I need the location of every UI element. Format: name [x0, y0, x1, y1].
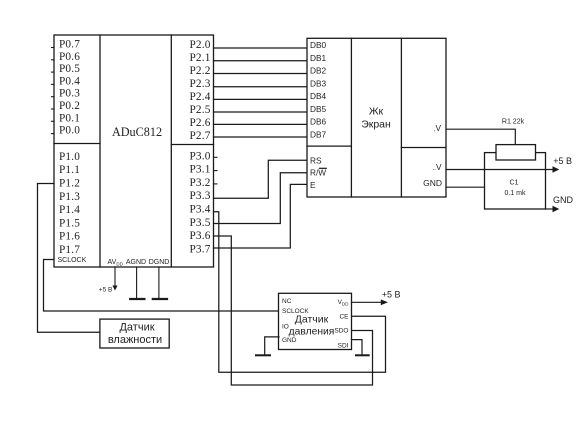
svg-text:P1.1: P1.1: [59, 164, 80, 176]
svg-text:,V: ,V: [434, 123, 442, 133]
ground AGND: [130, 267, 144, 299]
svg-text:P2.7: P2.7: [189, 130, 210, 142]
capacitor C1 box: [485, 153, 546, 209]
LCD DB/control divider: [307, 145, 351, 147]
svg-text:P3.5: P3.5: [189, 217, 210, 229]
wire P2.6 to DB6: [214, 123, 308, 125]
wire C1 bottom to GND arrow: [546, 208, 553, 210]
wire sensor SDI to ground: [352, 340, 363, 356]
svg-text:P2.3: P2.3: [189, 78, 210, 90]
wire P2.7 to DB7: [214, 136, 308, 138]
svg-text:DB0: DB0: [310, 40, 327, 50]
wire P2.2 to DB2: [214, 73, 308, 75]
U1 right column divider: [170, 35, 172, 267]
wire P1.2 to humidity sensor: [38, 184, 100, 333]
wire P3.4 to CE (via bottom): [214, 212, 386, 373]
svg-text:P2.4: P2.4: [189, 91, 210, 103]
resistor R1 body: [496, 145, 536, 160]
wire LCD ,V to resistor R1: [446, 129, 515, 144]
pin tick P3.1: [214, 170, 218, 172]
svg-text:DB2: DB2: [310, 66, 327, 76]
svg-text:Датчик: Датчик: [295, 314, 329, 326]
svg-text:DB6: DB6: [310, 117, 327, 127]
U1 left column divider: [99, 35, 101, 267]
LCD module box: [307, 38, 446, 197]
wire P3.3 to RS: [214, 160, 308, 198]
svg-text:ADuC812: ADuC812: [112, 125, 162, 139]
svg-text:P3.0: P3.0: [189, 150, 210, 162]
svg-text:P1.3: P1.3: [59, 191, 80, 203]
svg-text:R/W: R/W: [310, 168, 326, 178]
svg-text:P0.5: P0.5: [59, 63, 80, 75]
svg-text:P0.2: P0.2: [59, 100, 80, 112]
wire SCLOCK to pressure sensor SCLOCK: [44, 260, 280, 312]
LCD right column divider: [401, 147, 446, 149]
svg-text:R1 22k: R1 22k: [502, 119, 525, 126]
svg-text:P0.3: P0.3: [59, 88, 80, 100]
svg-text:Датчик: Датчик: [119, 322, 154, 334]
ground DGND: [153, 267, 167, 299]
svg-text:P0.4: P0.4: [59, 75, 80, 87]
wire LCD ..V to +5V: [446, 169, 553, 171]
svg-text:+5 В: +5 В: [382, 290, 401, 300]
svg-text:P0.7: P0.7: [59, 39, 80, 51]
svg-text:RS: RS: [310, 155, 322, 165]
svg-text:AGND: AGND: [126, 259, 146, 266]
svg-text:GND: GND: [553, 195, 574, 205]
svg-text:Жк: Жк: [369, 106, 384, 118]
svg-text:GND: GND: [282, 337, 297, 344]
svg-text:DB1: DB1: [310, 53, 327, 63]
svg-text:DB4: DB4: [310, 91, 327, 101]
svg-text:P3.4: P3.4: [189, 204, 210, 216]
U1 P2/P3 section divider: [171, 144, 213, 146]
svg-text:P3.3: P3.3: [189, 190, 210, 202]
pressure sensor box: [279, 293, 352, 349]
svg-text:SCLOCK: SCLOCK: [58, 257, 87, 264]
svg-text:C1: C1: [510, 180, 519, 187]
ground (sensor GND): [256, 354, 270, 356]
pin tick P0.6: [52, 59, 55, 61]
svg-text:P0.1: P0.1: [59, 112, 80, 124]
svg-text:P1.4: P1.4: [59, 204, 80, 216]
svg-text:влажности: влажности: [108, 334, 162, 346]
svg-text:P3.7: P3.7: [189, 243, 210, 255]
svg-text:P0.0: P0.0: [59, 125, 80, 137]
svg-text:P1.6: P1.6: [59, 231, 80, 243]
svg-text:P2.1: P2.1: [189, 52, 210, 64]
svg-text:DB5: DB5: [310, 104, 327, 114]
microcontroller U1 ADuC812 outer box: [54, 35, 214, 267]
svg-text:P2.2: P2.2: [189, 65, 210, 77]
svg-text:P2.5: P2.5: [189, 104, 210, 116]
wire LCD GND to C1: [446, 186, 485, 188]
pin tick P0.2: [52, 108, 55, 110]
pin tick P0.5: [52, 71, 55, 73]
svg-text:CE: CE: [339, 314, 349, 321]
svg-text:DB7: DB7: [310, 129, 327, 139]
svg-text:SDO: SDO: [334, 328, 348, 335]
wire P2.4 to DB4: [214, 98, 308, 100]
wire P3.6 to SDO (via bottom): [214, 236, 373, 385]
overline for W: [320, 167, 327, 169]
wire P3.5 to R/W: [214, 173, 308, 224]
wire P2.0 to DB0: [214, 47, 308, 49]
svg-text:P1.7: P1.7: [59, 244, 80, 256]
svg-text:P3.2: P3.2: [189, 177, 210, 189]
svg-text:+5 В: +5 В: [553, 156, 572, 166]
svg-text:GND: GND: [423, 178, 442, 188]
LCD divider 2: [400, 38, 402, 197]
wire P2.5 to DB5: [214, 111, 308, 113]
pin tick P3.2: [214, 183, 218, 185]
svg-text:Экран: Экран: [361, 119, 391, 131]
svg-text:DGND: DGND: [149, 259, 170, 266]
wire P3.7 to E: [214, 184, 308, 248]
wire sensor Vdd to +5V: [352, 301, 381, 303]
svg-text:SDI: SDI: [338, 343, 349, 350]
svg-text:DB3: DB3: [310, 78, 327, 88]
svg-text:P0.6: P0.6: [59, 51, 80, 63]
svg-text:+5 В: +5 В: [99, 286, 113, 293]
ground GND arrow (right): [553, 195, 574, 212]
power +5V at AVdd (arrow down): [99, 267, 118, 293]
humidity sensor box: [100, 319, 169, 348]
wire P2.3 to DB3: [214, 86, 308, 88]
svg-text:P1.0: P1.0: [59, 151, 80, 163]
U1 P0/P1 section divider: [54, 143, 100, 145]
power +5V arrow (right): [553, 156, 573, 173]
wire P2.1 to DB1: [214, 60, 308, 62]
svg-text:P1.5: P1.5: [59, 217, 80, 229]
svg-text:0.1 mk: 0.1 mk: [504, 190, 526, 197]
pin tick P0.0: [52, 133, 55, 135]
svg-text:P1.2: P1.2: [59, 178, 80, 190]
svg-text:P3.6: P3.6: [189, 230, 210, 242]
svg-text:давления: давления: [289, 327, 335, 338]
LCD divider 1: [350, 38, 352, 197]
pin tick P0.4: [52, 83, 55, 85]
svg-text:P2.0: P2.0: [189, 39, 210, 51]
wire sensor GND to ground: [265, 337, 279, 355]
svg-text:P2.6: P2.6: [189, 117, 210, 129]
pin tick P0.1: [52, 120, 55, 122]
ground (SDI): [356, 354, 369, 356]
pin tick P0.3: [52, 96, 55, 98]
power +5V arrow (sensor): [381, 290, 401, 306]
pin tick P3.0: [214, 156, 218, 158]
svg-text:NC: NC: [282, 298, 292, 305]
svg-text:P3.1: P3.1: [189, 164, 210, 176]
svg-text:E: E: [310, 180, 316, 190]
pin tick P0.7: [52, 47, 55, 49]
